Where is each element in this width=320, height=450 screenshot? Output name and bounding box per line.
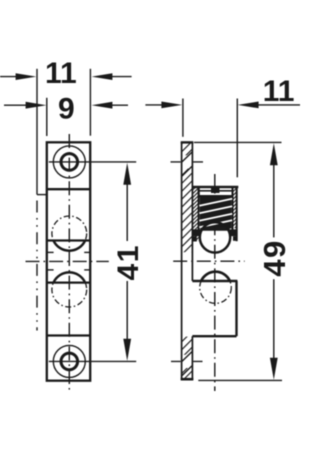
bottom hole countersink diagonal upper bbox=[182, 351, 193, 362]
housing right outer wall bbox=[236, 187, 238, 241]
dim 41: dimension line lower segment bbox=[126, 281, 128, 349]
dim 11 front: right extension line bbox=[89, 69, 91, 136]
dim 11 side: left extension line bbox=[182, 99, 184, 137]
dim 49: top extension line bbox=[194, 141, 282, 143]
side vertical center line bbox=[214, 174, 216, 391]
dim 9: left arrow tail bbox=[4, 104, 33, 106]
slot upper edge left stub bbox=[47, 251, 54, 253]
side mid horizontal center line bbox=[173, 260, 244, 262]
flange bar right edge lower bbox=[191, 336, 193, 380]
lower ball hidden circle side bbox=[200, 272, 232, 304]
bottom screw hole center line / 41 extension bottom bbox=[49, 360, 136, 362]
spring seat line bbox=[199, 195, 233, 197]
dim 11 side: left arrowhead bbox=[161, 102, 182, 109]
top screw hole countersink bbox=[53, 146, 85, 178]
top screw hole center line / 41 extension top bbox=[49, 161, 136, 163]
top hole countersink diagonal lower bbox=[182, 166, 193, 177]
plate outline front view bbox=[47, 142, 90, 380]
lower ball visible arc bbox=[54, 272, 86, 282]
dim 9: right arrowhead bbox=[92, 102, 113, 109]
dim 11 side: left arrow tail bbox=[145, 104, 169, 106]
dim 49: bottom extension line bbox=[198, 379, 282, 381]
slot lower edge right stub bbox=[84, 269, 90, 271]
slot upper edge right stub bbox=[84, 251, 90, 253]
dim 11 side: right arrowhead bbox=[238, 102, 259, 109]
spring block bbox=[200, 197, 232, 228]
housing left hatch strip bbox=[192, 188, 198, 241]
lower housing top edge bbox=[192, 280, 237, 283]
dim 41: dimension line upper segment bbox=[126, 175, 128, 241]
left profile jog line bbox=[37, 194, 47, 196]
top hole countersink diagonal upper bbox=[182, 152, 193, 163]
dim 11 front: left arrowhead bbox=[16, 73, 37, 80]
housing top tab bbox=[211, 187, 220, 193]
bottom screw hole countersink bbox=[53, 345, 85, 377]
dim 11 front: right arrowhead bbox=[92, 73, 113, 80]
upper ball visible arc bbox=[54, 241, 86, 251]
housing right hatch strip bbox=[233, 188, 237, 228]
lower housing bottom edge bbox=[192, 335, 236, 337]
flange bar top edge thick bbox=[181, 141, 194, 143]
slot lower edge left stub bbox=[47, 269, 54, 271]
dim 49: dimension line lower segment bbox=[273, 279, 275, 367]
lower housing right edge bbox=[235, 281, 237, 336]
svg-text:11: 11 bbox=[263, 75, 295, 108]
flange bar screw hole bottom white bbox=[181, 355, 193, 368]
dim 9: left arrowhead bbox=[26, 102, 47, 109]
housing right inner wall bbox=[232, 187, 234, 236]
dim 11 side: right arrow tail bbox=[251, 104, 300, 106]
mid horizontal center line front view bbox=[26, 260, 109, 262]
spring white stripe 2 bbox=[199, 206, 232, 213]
upper ball side view bbox=[200, 222, 230, 252]
spring white stripe 4 bbox=[199, 220, 232, 227]
flange bar hatch upper bbox=[182, 143, 192, 253]
flange bar bottom edge thick bbox=[181, 378, 194, 381]
dim 9: left extension line bbox=[46, 98, 48, 136]
upper ball chord line bbox=[200, 228, 230, 231]
side bottom screw center tick bbox=[171, 360, 203, 362]
flange bar hatch lower bbox=[182, 337, 192, 379]
dim 41: top arrowhead bbox=[123, 163, 131, 185]
vertical center line of front view bbox=[68, 134, 70, 393]
housing top edge bbox=[192, 186, 238, 189]
svg-text:11: 11 bbox=[45, 57, 77, 90]
dim 41: bottom arrowhead bbox=[123, 339, 131, 361]
upper ball hidden circle bbox=[52, 216, 87, 251]
housing bottom right lip lower bbox=[233, 236, 237, 241]
housing lid line bbox=[198, 190, 234, 192]
svg-text:9: 9 bbox=[58, 92, 75, 125]
lower ball visible arc side bbox=[201, 272, 230, 281]
dim 49: bottom arrowhead bbox=[270, 358, 278, 380]
left hidden center line bbox=[36, 201, 38, 331]
housing bottom left lip bbox=[192, 229, 200, 236]
bottom hole countersink diagonal lower bbox=[182, 365, 193, 376]
left profile thin edge line bbox=[36, 69, 38, 195]
spring white stripe 1 bbox=[199, 199, 232, 206]
svg-text:41: 41 bbox=[112, 244, 145, 280]
lower ball hidden circle bbox=[52, 272, 87, 307]
housing left wall bbox=[198, 187, 200, 236]
dim 11 front: right arrow tail bbox=[105, 76, 132, 78]
flange bar right edge upper bbox=[191, 142, 193, 281]
spring white stripe 3 bbox=[199, 214, 232, 221]
dim 49: top arrowhead bbox=[270, 143, 278, 165]
dim 11 side: right extension line bbox=[236, 99, 238, 178]
separator line 1 bbox=[47, 188, 90, 190]
svg-text:49: 49 bbox=[257, 239, 292, 276]
top screw hole bore bbox=[61, 154, 78, 171]
separator line 2 bbox=[47, 239, 90, 241]
bottom screw hole bore bbox=[61, 353, 78, 370]
dim 11 front: left arrow tail bbox=[0, 76, 24, 78]
side top screw center tick bbox=[171, 161, 204, 163]
separator line 4 bbox=[47, 334, 90, 336]
housing bottom left lip lower bbox=[192, 236, 196, 241]
housing bottom right lip bbox=[230, 229, 237, 236]
dim 49: dimension line upper segment bbox=[273, 156, 275, 238]
flange bar screw hole top white bbox=[181, 155, 193, 168]
separator line 3 bbox=[47, 281, 90, 283]
dim 9: right arrow tail bbox=[105, 104, 129, 106]
flange bar left edge bbox=[181, 142, 183, 380]
